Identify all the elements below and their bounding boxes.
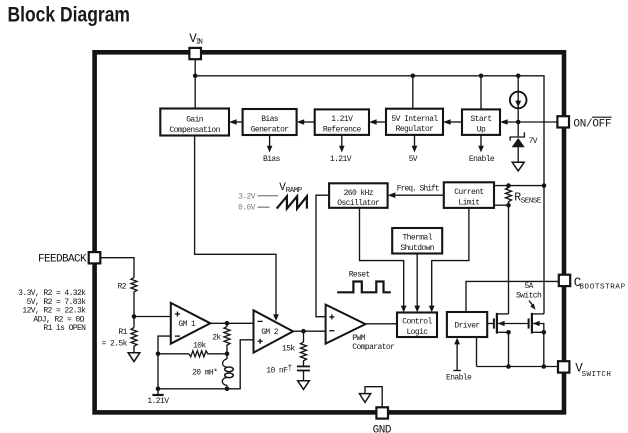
svg-text:Limit: Limit: [458, 198, 479, 207]
wire Driver to VSWITCH rail: [476, 337, 478, 367]
svg-text:Compensation: Compensation: [169, 126, 220, 135]
wire GM2 output to PWM comparator minus input: [293, 330, 326, 332]
node rail to Start Up: [479, 74, 484, 79]
wire GM1 output node to GM2 minus input: [227, 322, 254, 324]
svg-text:1.21V: 1.21V: [331, 115, 353, 124]
open arrow below zener: [512, 162, 524, 171]
resistor 10k: [158, 342, 227, 357]
svg-text:Enable: Enable: [446, 374, 472, 383]
box Control Logic: [397, 313, 437, 338]
svg-text:†: †: [288, 364, 293, 373]
wire junction to GM1 plus input: [134, 316, 171, 318]
waveform sawtooth VRAMP: [277, 196, 307, 208]
node rail to current source: [516, 74, 521, 79]
svg-text:BOOTSTRAP: BOOTSTRAP: [579, 283, 625, 291]
svg-text:RAMP: RAMP: [286, 187, 303, 195]
svg-text:2k: 2k: [212, 334, 221, 343]
svg-text:R2: R2: [118, 282, 127, 291]
wire arrow Bias Generator to Gain Compensation: [229, 119, 243, 125]
wire VSWITCH rail: [477, 366, 559, 368]
svg-text:7V: 7V: [529, 137, 538, 146]
svg-text:Oscillator: Oscillator: [337, 199, 380, 208]
wire arrow 1.21V Reference to Bias Generator: [297, 119, 315, 125]
svg-text:Switch: Switch: [516, 292, 542, 301]
resistor 2k: [212, 323, 230, 354]
wire Oscillator ramp output to PWM comparator: [316, 195, 329, 317]
wire rail to Start Up: [480, 76, 482, 110]
node Q2 source junction: [542, 330, 547, 335]
resistor R1: [102, 317, 137, 353]
svg-text:Up: Up: [477, 126, 486, 135]
svg-text:260 kHz: 260 kHz: [344, 189, 374, 198]
op-amp GM 2: [254, 310, 294, 352]
svg-text:FEEDBACK: FEEDBACK: [38, 254, 87, 266]
node ON/OFF line junction: [516, 120, 521, 125]
arrow Enable into Driver: [446, 338, 472, 383]
wire rail through current source to ON/OFF line: [517, 76, 519, 122]
svg-text:5V: 5V: [409, 155, 418, 164]
ground 1.21V reference: [147, 389, 169, 406]
node rail to 5V regulator: [411, 74, 416, 79]
node GM1 output: [225, 321, 230, 326]
svg-text:SENSE: SENSE: [521, 197, 542, 205]
svg-text:Comparator: Comparator: [352, 343, 395, 352]
box 5V Internal Regulator: [386, 109, 443, 135]
box Driver: [447, 312, 487, 337]
svg-text:PWM: PWM: [352, 334, 365, 343]
box Thermal Shutdown: [392, 228, 442, 254]
wire Oscillator reset output to Control Logic: [360, 208, 407, 312]
wire arrow Start Up to 5V Internal Regulator: [443, 119, 462, 125]
svg-text:ON/OFF: ON/OFF: [573, 118, 611, 130]
wire arrow 5V Internal Regulator to 1.21V Reference: [369, 119, 386, 125]
node 2k bottom junction: [225, 352, 230, 357]
op-amp PWM comparator: [326, 305, 366, 344]
wire Driver output to gates: [487, 323, 494, 325]
label PWM Comparator: [352, 334, 395, 352]
arrow Bias output: [263, 135, 281, 164]
svg-text:15k: 15k: [282, 345, 295, 354]
node 10k left junction: [156, 352, 161, 357]
box 1.21V Reference: [315, 109, 369, 134]
transistor Q2 power switch: [529, 313, 544, 334]
resistor 15k: [282, 331, 307, 366]
box Gain Compensation: [160, 109, 229, 136]
inductor 20 mH: [192, 354, 233, 389]
wire arrow Gain Compensation to GM2: [195, 136, 279, 321]
svg-text:GND: GND: [373, 424, 392, 433]
capacitor 10 nF: [266, 364, 310, 381]
svg-text:5V Internal: 5V Internal: [391, 115, 438, 124]
wire Q1 source to VSWITCH rail: [508, 332, 510, 366]
node Q2 source on rail: [542, 364, 547, 369]
wire rail to 5V Internal Regulator: [412, 76, 414, 109]
box Current Limit: [444, 182, 494, 208]
resistor R2: [118, 278, 138, 295]
svg-text:10k: 10k: [193, 342, 206, 351]
svg-text:10 nF: 10 nF: [266, 366, 288, 375]
pin VIN: [189, 32, 202, 59]
svg-text:Bias: Bias: [261, 115, 279, 124]
wire Current Limit to Control Logic: [429, 208, 469, 312]
svg-text:1.21V: 1.21V: [147, 397, 169, 406]
wire GM1 minus input to 1.21V rail: [158, 336, 171, 389]
zener diode D1 7V: [510, 122, 538, 162]
svg-text:Reference: Reference: [323, 126, 362, 135]
node GM2 output: [301, 329, 306, 334]
svg-text:Start: Start: [470, 115, 491, 124]
svg-text:Current: Current: [454, 188, 483, 197]
svg-text:Bias: Bias: [263, 155, 281, 164]
node Q1 source on rail: [506, 364, 511, 369]
node 1.21V ground junction: [156, 387, 161, 392]
svg-text:5A: 5A: [524, 282, 533, 291]
label VRAMP: [279, 182, 303, 195]
node inductor bottom junction: [225, 387, 230, 392]
note resistor values: [18, 289, 86, 333]
box Bias Generator: [243, 109, 297, 135]
wire Q2 source to VSWITCH rail: [543, 332, 545, 366]
ground arrow near GND pin: [359, 387, 382, 408]
wire VIN to internal rail: [194, 59, 196, 108]
wire Thermal Shutdown to Control Logic: [414, 254, 420, 313]
svg-text:ADJ, R2 = 0Ω: ADJ, R2 = 0Ω: [33, 315, 84, 324]
op-amp GM 1: [171, 303, 211, 344]
pin ON/OFF: [557, 116, 611, 130]
open arrow below R1: [128, 353, 140, 362]
svg-text:IN: IN: [196, 38, 203, 46]
open arrow below capacitor: [298, 381, 310, 390]
transistor Q1 sense FET: [494, 313, 529, 334]
wire CBOOTSTRAP to Driver: [466, 281, 559, 312]
svg-text:SWITCH: SWITCH: [582, 371, 611, 379]
pin FEEDBACK: [38, 252, 100, 265]
svg-text:R1: R1: [118, 328, 127, 337]
wire 1.21V rail bottom: [158, 340, 254, 389]
svg-text:3.2V: 3.2V: [238, 193, 256, 202]
svg-text:R1 is OPEN: R1 is OPEN: [43, 324, 86, 333]
svg-text:5V, R2 = 7.83k: 5V, R2 = 7.83k: [27, 298, 87, 307]
svg-text:Control: Control: [402, 317, 432, 326]
wire top internal rail: [195, 76, 544, 314]
node feedback divider junction: [132, 314, 137, 319]
arrow 5V output: [409, 135, 418, 164]
arrow Enable output of Start Up: [469, 135, 495, 164]
svg-text:GM 2: GM 2: [261, 328, 279, 337]
svg-text:12V, R2 = 22.3k: 12V, R2 = 22.3k: [22, 307, 86, 316]
wire RSENSE to sense FET drain: [508, 205, 510, 314]
pin CBOOTSTRAP: [559, 275, 626, 292]
wire GM1 output to 2k node: [210, 322, 227, 324]
pin VSWITCH: [558, 361, 610, 379]
wire PWM output to Control Logic: [365, 323, 397, 325]
svg-text:Logic: Logic: [406, 328, 428, 337]
svg-text:1.21V: 1.21V: [330, 155, 352, 164]
wire arrow Current Limit to Oscillator: [388, 192, 444, 198]
svg-text:Enable: Enable: [469, 155, 495, 164]
svg-text:Reset: Reset: [349, 270, 370, 279]
arrow 1.21V output: [330, 135, 352, 164]
svg-text:GM 1: GM 1: [178, 320, 196, 329]
label 5A Switch: [516, 282, 542, 310]
VRAMP annotation 0.6V level: [238, 203, 269, 212]
svg-text:Regulator: Regulator: [396, 125, 435, 134]
box 260 kHz Oscillator: [329, 183, 388, 208]
svg-text:20 mH*: 20 mH*: [192, 368, 217, 377]
svg-text:Freq. Shift: Freq. Shift: [397, 184, 439, 193]
svg-text:0.6V: 0.6V: [238, 203, 256, 212]
resistor RSENSE: [494, 183, 546, 207]
wire R2 to junction: [133, 294, 135, 317]
svg-text:Shutdown: Shutdown: [400, 244, 434, 253]
waveform Reset pulses: [337, 282, 391, 293]
current source I1: [510, 92, 527, 109]
svg-text:Thermal: Thermal: [402, 233, 432, 242]
svg-text:Gain: Gain: [186, 115, 204, 124]
pin GND: [373, 407, 392, 433]
svg-text:3.3V, R2 = 4.32k: 3.3V, R2 = 4.32k: [18, 289, 86, 298]
IC boundary: [95, 52, 564, 412]
node VIN rail junction: [193, 74, 198, 79]
node Q1 source junction: [506, 330, 511, 335]
wire FEEDBACK to R2: [100, 258, 134, 278]
box Start Up: [462, 109, 500, 134]
VRAMP annotation 3.2V level: [238, 193, 278, 202]
svg-text:Driver: Driver: [454, 321, 480, 330]
svg-text:Generator: Generator: [251, 126, 290, 135]
svg-text:= 2.5k: = 2.5k: [102, 339, 128, 348]
wire ON/OFF to Start Up: [500, 119, 557, 125]
svg-text:Block Diagram: Block Diagram: [8, 4, 131, 27]
